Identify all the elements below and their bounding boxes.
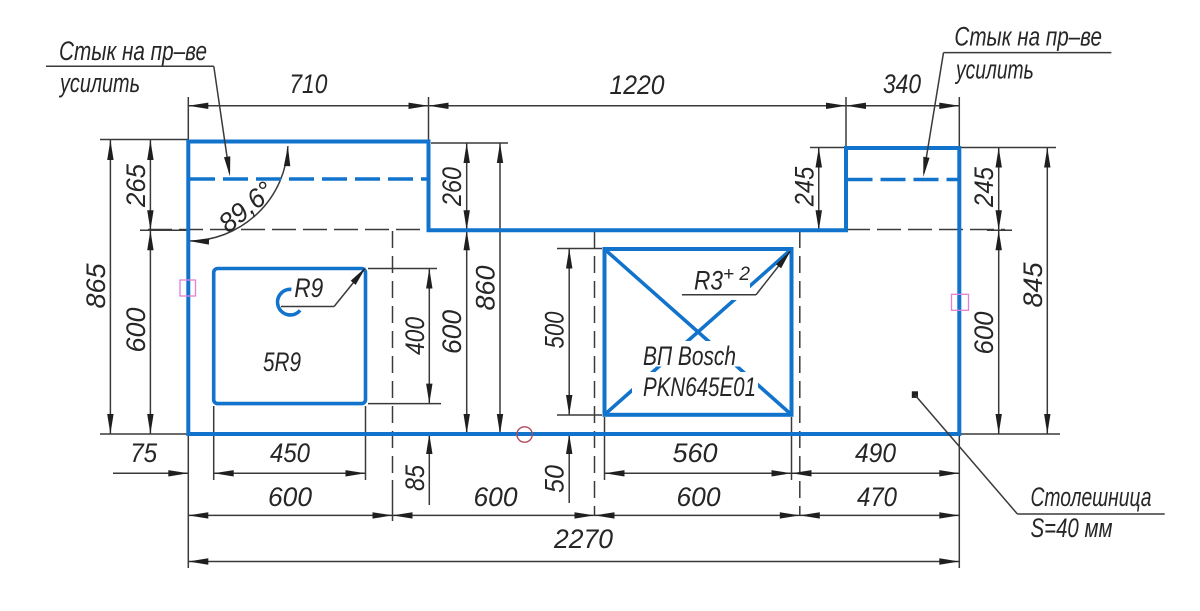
svg-text:710: 710 — [289, 69, 327, 99]
svg-text:400: 400 — [400, 317, 430, 355]
svg-text:340: 340 — [883, 69, 921, 99]
svg-text:75: 75 — [130, 438, 158, 468]
svg-text:865: 865 — [81, 262, 111, 308]
svg-text:R3: R3 — [694, 266, 723, 296]
svg-text:85: 85 — [400, 464, 430, 491]
svg-text:усилить: усилить — [59, 68, 140, 98]
svg-text:600: 600 — [437, 310, 467, 354]
svg-text:5R9: 5R9 — [263, 347, 301, 377]
svg-text:600: 600 — [121, 307, 151, 352]
svg-text:490: 490 — [855, 438, 896, 468]
svg-text:560: 560 — [672, 438, 717, 468]
svg-text:600: 600 — [268, 482, 312, 512]
svg-text:600: 600 — [969, 312, 999, 355]
svg-text:+ 2: + 2 — [723, 264, 750, 285]
svg-text:845: 845 — [1018, 261, 1048, 307]
svg-text:470: 470 — [857, 482, 897, 512]
svg-text:50: 50 — [540, 465, 570, 493]
svg-text:500: 500 — [540, 312, 570, 349]
svg-text:Стык на пр–ве: Стык на пр–ве — [954, 22, 1102, 52]
svg-text:S=40 мм: S=40 мм — [1031, 513, 1113, 543]
svg-text:ВП Bosch: ВП Bosch — [643, 341, 736, 371]
svg-text:R9: R9 — [294, 273, 323, 303]
svg-text:PKN645E01: PKN645E01 — [643, 372, 756, 402]
svg-text:265: 265 — [121, 163, 151, 208]
svg-text:Столешница: Столешница — [1031, 482, 1152, 512]
svg-text:усилить: усилить — [955, 54, 1034, 84]
svg-text:245: 245 — [789, 166, 819, 207]
svg-text:2270: 2270 — [553, 524, 613, 554]
svg-text:1220: 1220 — [610, 70, 665, 100]
svg-text:860: 860 — [471, 265, 501, 310]
svg-text:245: 245 — [969, 166, 999, 208]
svg-text:Стык на пр–ве: Стык на пр–ве — [59, 36, 207, 66]
svg-text:450: 450 — [270, 438, 310, 468]
svg-text:600: 600 — [677, 482, 721, 512]
svg-text:600: 600 — [474, 482, 518, 512]
svg-text:260: 260 — [437, 167, 467, 207]
